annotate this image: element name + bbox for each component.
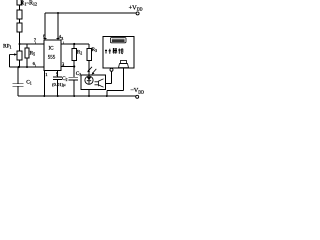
resistor chain box3 <box>17 23 22 32</box>
label jisuanji (computer) hand-drawn glyphs <box>105 48 123 54</box>
wire R2 top lead <box>73 44 75 49</box>
wire left resistor chain vertical <box>19 5 21 10</box>
svg-text:+VDD: +VDD <box>129 4 143 11</box>
wire pin8 drop <box>44 13 46 40</box>
wire plug drop <box>122 68 124 90</box>
node junction R5 bottom <box>26 66 28 68</box>
wire C2 bottom stem <box>57 80 59 97</box>
svg-text:C1: C1 <box>26 80 32 86</box>
wire pin7 horizontal <box>20 43 45 45</box>
optocoupler box <box>81 75 106 90</box>
resistor R3 body <box>87 49 92 61</box>
wire R2 bottom to C3 <box>73 61 75 78</box>
wire pin1 stem <box>43 71 45 97</box>
light arrows into detector <box>87 67 96 75</box>
potentiometer RP1 wiper arrow <box>10 53 18 55</box>
wire optocoupler out horizontal <box>106 82 112 84</box>
node junction pot bottom / C1 <box>18 66 20 68</box>
node junction R2 top <box>73 43 75 45</box>
pin tick marks <box>36 39 64 68</box>
wire pot bottom lead <box>19 60 21 67</box>
svg-text:RP1: RP1 <box>3 44 12 50</box>
svg-text:555: 555 <box>48 56 56 61</box>
counter screen icon <box>110 38 126 43</box>
wire LED bottom stem <box>88 85 90 97</box>
node junction rail LED <box>88 95 90 97</box>
node +VDD terminal <box>136 12 139 15</box>
wire R3 top lead <box>88 44 90 49</box>
char suan <box>113 48 118 54</box>
transistor Q1 photodetector LED circle <box>85 76 93 85</box>
wire pin4 drop <box>57 13 59 40</box>
wire pot wiper vertical <box>9 55 11 68</box>
counter plug icon <box>119 61 129 68</box>
resistor chain box2 <box>17 10 22 19</box>
svg-text:7: 7 <box>34 38 37 43</box>
wire R3 bottom lead <box>88 61 90 76</box>
wire C1 bottom stem <box>17 86 19 96</box>
labels <box>3 0 144 94</box>
svg-text:R3: R3 <box>92 47 98 53</box>
wire C3 bottom stem <box>73 80 75 96</box>
resistor R5 body <box>25 48 29 58</box>
wire plug jog horizontal <box>107 89 124 91</box>
wire pin6 horizontal <box>10 66 45 68</box>
node junction pin2/R2/C3 <box>73 65 75 67</box>
node junction pin4 top <box>57 12 59 14</box>
wire R5 bottom lead <box>26 58 28 67</box>
svg-text:C3: C3 <box>76 71 82 77</box>
wire pin5 stem <box>57 71 59 78</box>
wire pin3 horizontal <box>61 43 89 45</box>
resistor R1 chain box1 <box>17 0 22 5</box>
node junction rail pin1 <box>43 95 45 97</box>
node junction chain/pin7 <box>19 43 21 45</box>
counter box <box>103 37 134 68</box>
potentiometer RP1 body <box>17 51 22 60</box>
capacitor C3 plates <box>69 76 79 78</box>
svg-text:IC: IC <box>49 47 55 52</box>
wire +VDD top rail <box>45 12 136 14</box>
svg-text:2: 2 <box>62 61 65 66</box>
svg-text:6: 6 <box>33 61 36 66</box>
wire pin2 stub <box>61 66 74 68</box>
wire counter terminal drop <box>111 72 113 84</box>
op-amp U1 IC 555 body <box>44 40 61 71</box>
node counter terminal <box>110 68 113 71</box>
node junction rail jog <box>106 95 108 97</box>
svg-text:5: 5 <box>56 72 59 77</box>
photodetector output element inside box <box>95 79 104 87</box>
svg-text:R5: R5 <box>30 51 36 57</box>
wire C1 top stem <box>17 67 19 84</box>
wire pot top lead <box>19 44 21 51</box>
char ji <box>105 49 111 54</box>
svg-text:8: 8 <box>43 34 46 39</box>
wire R5 top lead <box>26 44 28 48</box>
capacitor C1 plates <box>13 83 24 85</box>
wire plug jog drop <box>106 90 108 96</box>
wire ground rail <box>18 95 136 97</box>
node junction rail C2 <box>57 95 59 97</box>
svg-text:1: 1 <box>45 72 48 77</box>
capacitor C2 plates <box>53 76 62 78</box>
resistor R2 body <box>72 49 77 61</box>
node junction rail C3 <box>73 95 75 97</box>
char ji2 <box>118 49 123 54</box>
svg-text:R2: R2 <box>77 49 83 55</box>
node -VDD terminal <box>136 95 139 98</box>
svg-text:R1~R12: R1~R12 <box>20 0 37 6</box>
svg-text:(0.01)μ: (0.01)μ <box>52 82 66 87</box>
svg-text:−VDD: −VDD <box>130 87 144 94</box>
svg-text:3: 3 <box>61 36 64 41</box>
